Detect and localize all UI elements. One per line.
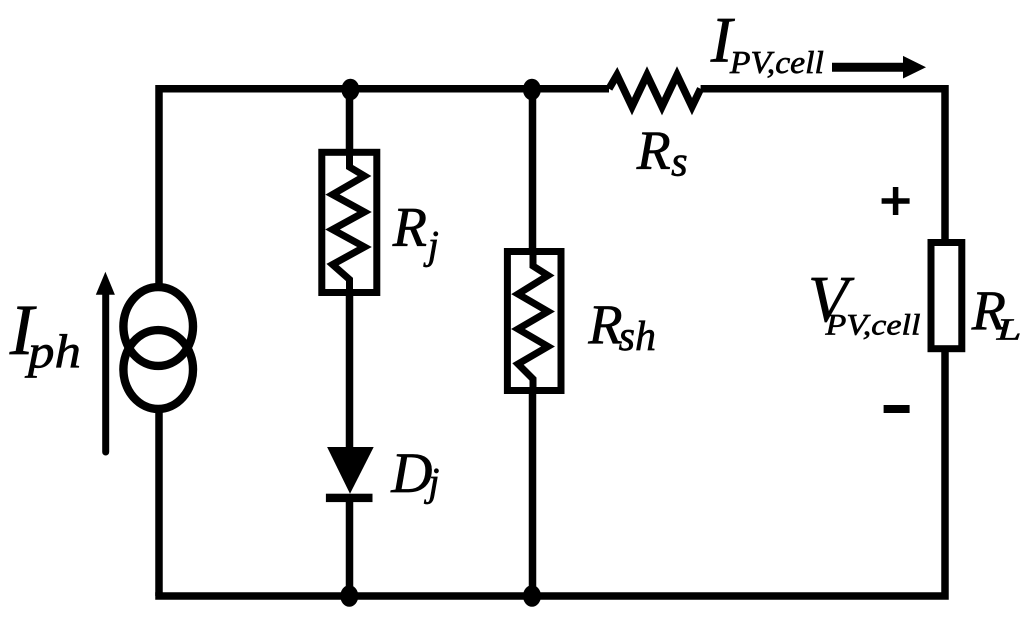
svg-text:PV,cell: PV,cell [729,44,824,80]
wire: below R_sh [529,390,537,596]
plus sign [882,187,910,215]
svg-text:s: s [671,139,688,186]
wire: left vertical below current source [155,412,163,596]
wire: bottom horizontal + right lower vertical segment [159,352,945,596]
wire: top-right horizontal + right upper vertical segment [701,89,945,242]
wire: between R_j and diode [346,292,354,449]
current source I_ph (two overlapping circles) [123,287,193,366]
svg-text:R: R [636,121,671,182]
resistor R_sh (box with zigzag) [507,252,561,391]
node (bottom, R_sh branch) [523,585,541,607]
arrow for I_PV,cell (rightward) [832,63,905,72]
svg-text:D: D [390,442,432,505]
arrow for I_ph (upward) [102,290,109,452]
svg-text:L: L [995,312,1021,347]
node (bottom, R_j branch) [340,585,358,607]
minus sign [884,405,910,413]
diode D_j cathode bar [326,494,373,502]
svg-text:R: R [392,197,427,259]
svg-text:ph: ph [25,326,81,379]
resistor R_L (plain box) [931,243,962,349]
diode D_j (triangle) [327,447,374,494]
node B (top, R_sh branch) [523,79,541,101]
svg-text:PV,cell: PV,cell [824,309,920,342]
wire: left vertical + top-left horizontal segment [159,89,609,285]
resistor R_j (box with zigzag) [322,152,377,292]
wire: R_sh branch top [529,89,537,251]
node A (top, R_j branch) [341,79,359,101]
svg-text:sh: sh [619,314,656,360]
svg-text:R: R [587,294,622,356]
wire: R_j branch top [346,89,354,152]
resistor R_s (zigzag on top wire) [609,75,701,107]
wire: below diode [346,500,354,596]
